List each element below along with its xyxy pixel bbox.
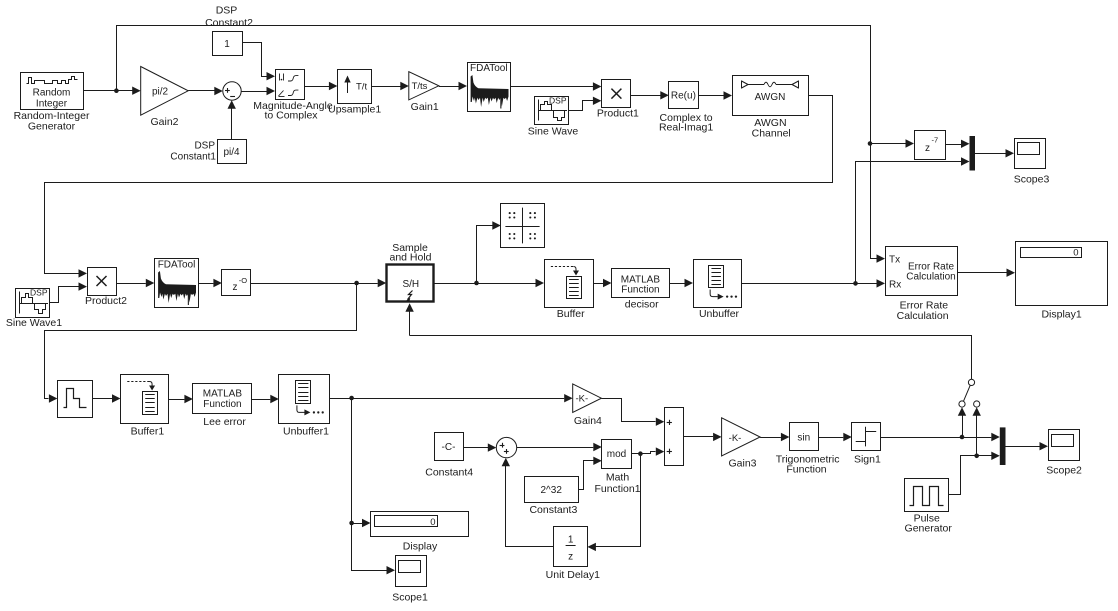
- label Complex to Real-Imag1: [659, 112, 713, 134]
- node branch on Rx line: [853, 281, 858, 286]
- wire z^-O to Sample and Hold: [251, 279, 386, 287]
- block Constant4: [435, 433, 464, 461]
- sum block Sum1: [496, 437, 516, 457]
- svg-text:Constant1: Constant1: [170, 152, 216, 163]
- svg-text:Product2: Product2: [85, 295, 127, 307]
- block Sine Wave1: [16, 288, 50, 318]
- wire Gain4 to Add: [602, 399, 665, 426]
- svg-text:Unbuffer: Unbuffer: [699, 308, 740, 320]
- svg-text:Re(u): Re(u): [671, 91, 696, 102]
- scope Scope1: [392, 556, 428, 604]
- wire DSP Constant2 to Magnitude-Angle: [243, 43, 276, 81]
- svg-text:-K-: -K-: [575, 394, 588, 405]
- svg-text:pi/4: pi/4: [223, 147, 240, 158]
- label Unit Delay1: [546, 569, 600, 581]
- wire z^-7 to Mux: [945, 140, 970, 148]
- label DSP Constant2: [205, 5, 253, 29]
- label Constant3: [529, 504, 577, 516]
- svg-text:decisor: decisor: [625, 299, 659, 311]
- wire trigger into Sample and Hold: [405, 303, 971, 379]
- svg-text:DSP: DSP: [549, 96, 567, 106]
- filter block FDATool1: [155, 259, 199, 308]
- sum block Add: [665, 408, 684, 466]
- svg-text:pi/2: pi/2: [152, 87, 169, 98]
- node branch to Integer Delay z-7: [868, 141, 873, 146]
- label Buffer: [557, 308, 585, 320]
- wire Sine Wave1 to Product2: [50, 282, 88, 302]
- wire Product2 to FDATool1: [116, 279, 154, 287]
- wire Buffer to MATLAB Function decisor: [593, 279, 612, 287]
- svg-text:Upsample1: Upsample1: [328, 103, 381, 115]
- wire MATLAB Function to Unbuffer: [669, 279, 693, 287]
- svg-text:Gain1: Gain1: [411, 101, 439, 113]
- label Constant4: [425, 467, 473, 479]
- svg-text:-O: -O: [239, 276, 247, 285]
- svg-text:Random: Random: [33, 88, 71, 99]
- svg-text:Rx: Rx: [889, 280, 901, 291]
- svg-text:AWGN: AWGN: [755, 92, 786, 103]
- label DSP Constant1: [170, 141, 216, 163]
- sum block Sum: [223, 82, 241, 100]
- wire Sign1 to Mux2: [880, 433, 1000, 441]
- svg-text:z: z: [568, 552, 573, 563]
- wire Trigonometric Function to Sign1: [818, 433, 852, 441]
- wire MATLAB Function to Unbuffer1: [252, 395, 279, 403]
- delay block z^-O: [222, 270, 251, 296]
- product block Product2: [88, 268, 117, 296]
- svg-text:Generator: Generator: [28, 121, 76, 133]
- block Trigonometric Function: [790, 423, 819, 451]
- node branch to Display and Scope1: [349, 396, 354, 401]
- svg-text:z: z: [233, 282, 238, 293]
- svg-text:Calculation: Calculation: [906, 272, 955, 283]
- unbuffer block Unbuffer: [694, 260, 742, 308]
- svg-text:Sign1: Sign1: [854, 454, 881, 466]
- label Pulse Generator: [905, 513, 953, 535]
- wire branch to Display: [352, 519, 371, 527]
- svg-text:and Hold: and Hold: [389, 252, 431, 264]
- display Display1: [1016, 242, 1108, 306]
- label Display1: [1041, 309, 1081, 321]
- svg-text:DSP: DSP: [216, 5, 238, 17]
- svg-text:Constant3: Constant3: [529, 504, 577, 516]
- constellation scope block: [501, 204, 545, 248]
- wire branch down to Scope1: [352, 399, 396, 575]
- wire Unbuffer1 to Gain4: [330, 394, 573, 402]
- svg-text:Sine Wave: Sine Wave: [528, 126, 579, 138]
- svg-text:Scope3: Scope3: [1014, 174, 1050, 186]
- label Magnitude-Angle to Complex: [253, 100, 333, 121]
- svg-text:Gain3: Gain3: [728, 458, 756, 470]
- svg-text:Integer: Integer: [36, 99, 68, 110]
- wire Sample and Hold to Buffer: [433, 279, 544, 287]
- block stair generator: [58, 381, 93, 418]
- svg-text:Sine Wave1: Sine Wave1: [6, 317, 62, 329]
- wire switch left contact: [958, 407, 966, 437]
- wire Sine Wave to Product1: [569, 97, 602, 111]
- block MATLAB Function Lee error: [193, 384, 252, 414]
- svg-text:MATLAB: MATLAB: [203, 389, 243, 400]
- block Constant3: [525, 477, 579, 503]
- node branch to Display: [349, 521, 354, 526]
- gain Gain1: [409, 72, 439, 100]
- label Upsample1: [328, 103, 381, 115]
- svg-text:S/H: S/H: [402, 279, 419, 290]
- buffer block Buffer1: [121, 375, 169, 424]
- wire Constant3 to Math Function1: [579, 457, 602, 490]
- svg-text:to Complex: to Complex: [264, 109, 318, 121]
- label Sign1: [854, 454, 881, 466]
- wire top feedback line to Tx: [117, 26, 886, 263]
- svg-text:-K-: -K-: [729, 433, 742, 444]
- display Display: [371, 512, 469, 537]
- label Gain4: [574, 415, 602, 427]
- wire branch up to constellation scope: [477, 221, 501, 283]
- wire Complex-to-Real-Imag1 to AWGN: [698, 91, 732, 99]
- label Trigonometric Function: [776, 454, 840, 476]
- label Buffer1: [131, 426, 165, 438]
- wire Rx branch to Mux: [856, 157, 970, 283]
- svg-text:Display1: Display1: [1041, 309, 1081, 321]
- label Math Function1: [594, 472, 640, 496]
- delay block Unit Delay1: [554, 527, 588, 567]
- block Sine Wave: [535, 96, 569, 125]
- wire Mux2 to Scope2: [1006, 442, 1049, 450]
- svg-text:1: 1: [568, 535, 574, 546]
- wire branch down to Unit Delay1: [587, 454, 640, 552]
- wire Buffer1 to MATLAB Function Lee error: [169, 395, 193, 403]
- label Gain1: [411, 101, 439, 113]
- svg-text:DSP: DSP: [194, 141, 215, 152]
- svg-text:mod: mod: [607, 449, 626, 460]
- wire branch down to stair block: [45, 284, 357, 403]
- block Upsample1: [338, 70, 372, 104]
- wire Add to Gain3: [683, 433, 722, 441]
- unbuffer block Unbuffer1: [279, 375, 330, 424]
- manual switch: [959, 379, 980, 407]
- label Sine Wave1: [6, 317, 62, 329]
- svg-text:Display: Display: [403, 540, 438, 552]
- delay block z^-7: [915, 131, 946, 160]
- label Error Rate Calculation: [897, 300, 949, 322]
- wire Pulse Generator to Mux2: [949, 452, 1000, 495]
- wire Constant4 to Sum1: [463, 443, 496, 451]
- label Gain3: [728, 458, 756, 470]
- wire to Integer Delay z-7: [870, 139, 914, 147]
- block Math Function1 mod: [602, 440, 632, 469]
- node branch to lower chain: [354, 281, 359, 286]
- block Pulse Generator: [905, 479, 949, 512]
- block Magnitude-Angle to Complex: [276, 70, 305, 100]
- svg-text:Gain2: Gain2: [150, 116, 178, 128]
- svg-text:2^32: 2^32: [541, 485, 563, 496]
- node switch tap on Pulse line: [974, 454, 979, 459]
- svg-text:z: z: [925, 143, 930, 154]
- block Complex to Real-Imag1: [669, 82, 699, 109]
- mux Mux1: [970, 136, 976, 171]
- svg-text:Scope2: Scope2: [1046, 464, 1082, 476]
- wire Gain3 to Trigonometric Function: [760, 433, 789, 441]
- label Gain2: [150, 116, 178, 128]
- wire Random-Integer output: [83, 87, 141, 95]
- svg-text:-C-: -C-: [442, 442, 456, 453]
- svg-text:Gain4: Gain4: [574, 415, 602, 427]
- svg-text:Math: Math: [606, 472, 630, 484]
- svg-text:Function: Function: [621, 285, 659, 296]
- block DSP Constant1 value pi/4: [218, 140, 247, 164]
- block AWGN Channel: [733, 76, 809, 116]
- svg-text:Function: Function: [786, 463, 826, 475]
- wire Upsample1 to Gain1: [372, 82, 409, 90]
- svg-text:Constant4: Constant4: [425, 467, 473, 479]
- gain Gain3: [722, 418, 761, 456]
- node switch tap on Sign1 line: [960, 435, 965, 440]
- wire Gain1 to FDATool: [439, 82, 467, 90]
- buffer block Buffer: [545, 260, 594, 308]
- svg-text:Function1: Function1: [594, 483, 640, 495]
- label Product1: [597, 108, 639, 120]
- mux Mux2: [1000, 427, 1006, 465]
- scope Scope3: [1014, 139, 1050, 186]
- block MATLAB Function decisor: [612, 269, 670, 298]
- wire Magnitude-Angle to Upsample1: [304, 82, 337, 90]
- label Unbuffer1: [283, 426, 329, 438]
- svg-text:0: 0: [430, 517, 435, 528]
- svg-text:DSP: DSP: [30, 288, 48, 298]
- svg-text:Unbuffer1: Unbuffer1: [283, 426, 329, 438]
- wire Unit Delay1 to Sum1: [502, 458, 554, 547]
- wire Unbuffer to Error Rate Rx: [741, 279, 885, 287]
- svg-text:Scope1: Scope1: [392, 592, 428, 604]
- wire Sum1 to Math Function1: [517, 443, 602, 451]
- gain Gain4: [573, 384, 602, 413]
- label decisor: [625, 299, 659, 311]
- filter block FDATool: [468, 63, 511, 112]
- svg-text:1: 1: [224, 39, 230, 50]
- svg-text:Real-Imag1: Real-Imag1: [659, 122, 713, 134]
- block DSP Constant2 value 1: [213, 32, 243, 56]
- svg-text:Function: Function: [203, 399, 241, 410]
- svg-text:-7: -7: [932, 136, 939, 145]
- svg-text:FDATool: FDATool: [470, 63, 508, 74]
- wire Math Function1 to Add: [632, 447, 665, 455]
- svg-text:Lee error: Lee error: [203, 416, 246, 428]
- wire Product1 to Complex-to-Real-Imag1: [631, 91, 669, 99]
- svg-text:T/ts: T/ts: [412, 81, 428, 92]
- wire stair block to Buffer1: [92, 394, 120, 402]
- block Error Rate Calculation: [886, 247, 958, 296]
- label AWGN Channel: [752, 117, 791, 139]
- svg-text:Tx: Tx: [889, 255, 900, 266]
- label Lee error: [203, 416, 246, 428]
- label Random-Integer Generator: [14, 110, 90, 133]
- block Random-Integer Generator: [21, 73, 84, 110]
- svg-text:Generator: Generator: [905, 523, 953, 535]
- gain Gain2: [141, 67, 189, 116]
- node branch to top line: [114, 88, 119, 93]
- svg-text:FDATool: FDATool: [158, 259, 196, 270]
- svg-text:T/t: T/t: [356, 82, 367, 93]
- wire AWGN Channel loop to Product2: [45, 96, 833, 278]
- wire FDATool to Product1: [511, 82, 602, 90]
- svg-text:Channel: Channel: [752, 127, 791, 139]
- label Sine Wave: [528, 126, 579, 138]
- wire Gain2 to Sum: [188, 87, 223, 95]
- wire Error Rate to Display1: [957, 269, 1015, 277]
- label Display: [403, 540, 438, 552]
- svg-text:0: 0: [1073, 247, 1078, 258]
- block Sample and Hold S/H: [387, 265, 434, 303]
- svg-text:Product1: Product1: [597, 108, 639, 120]
- svg-text:Buffer1: Buffer1: [131, 426, 165, 438]
- block Sign1: [852, 423, 881, 451]
- scope Scope2: [1046, 430, 1082, 477]
- node branch to Unit Delay1: [638, 451, 643, 456]
- node branch to constellation scope: [474, 281, 479, 286]
- svg-text:Unit Delay1: Unit Delay1: [546, 569, 600, 581]
- svg-text:Calculation: Calculation: [897, 310, 949, 322]
- svg-text:Buffer: Buffer: [557, 308, 585, 320]
- wire Mux to Scope3: [975, 149, 1014, 157]
- wire switch right contact: [973, 407, 981, 456]
- wire DSP Constant1 to Sum: [228, 100, 236, 139]
- wire FDATool1 to Integer Delay z-O: [199, 279, 222, 287]
- label Sample and Hold: [389, 242, 431, 264]
- label Product2: [85, 295, 127, 307]
- label Unbuffer: [699, 308, 740, 320]
- svg-text:sin: sin: [797, 432, 810, 443]
- svg-text:Constant2: Constant2: [205, 17, 253, 29]
- product block Product1: [602, 80, 631, 108]
- wire Sum to Magnitude-Angle: [241, 87, 275, 95]
